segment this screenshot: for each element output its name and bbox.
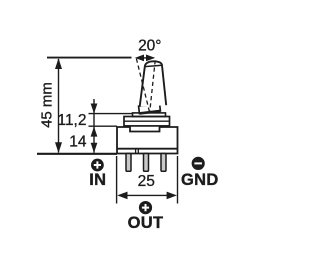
label OUT	[128, 214, 164, 232]
extension line 25 right	[177, 156, 179, 204]
IN plus symbol	[91, 159, 104, 172]
extension line 11,2 top	[89, 113, 133, 115]
label 11,2	[57, 112, 86, 129]
bushing nut	[124, 117, 170, 126]
label 14	[69, 134, 87, 151]
lever collar	[139, 104, 161, 114]
extension line top of lever	[47, 57, 132, 59]
label 20 degrees	[138, 38, 161, 55]
label 45 mm	[39, 82, 56, 128]
svg-text:OUT: OUT	[128, 214, 164, 232]
extension line 25 left	[116, 156, 118, 204]
switch body	[117, 127, 178, 154]
svg-text:25: 25	[138, 173, 155, 190]
dashed swing line right	[150, 60, 155, 111]
pin 1	[126, 154, 131, 172]
dimension line 11,2 / 14 vertical	[91, 99, 98, 153]
dimension line 45 mm	[55, 58, 62, 153]
dashed swing line left	[136, 59, 149, 112]
svg-text:11,2: 11,2	[57, 112, 86, 129]
svg-text:14: 14	[69, 134, 87, 151]
pin 2	[144, 154, 149, 172]
angle arrow 20 degrees	[135, 55, 155, 62]
label IN	[89, 171, 106, 189]
OUT plus symbol	[139, 201, 152, 214]
GND minus symbol	[192, 157, 205, 170]
svg-text:20°: 20°	[138, 38, 161, 55]
dimension arrow 25	[117, 192, 177, 200]
label GND	[181, 171, 219, 189]
pin 3	[161, 154, 166, 172]
toggle lever	[140, 61, 167, 106]
svg-text:GND: GND	[181, 171, 219, 189]
svg-text:45 mm: 45 mm	[39, 82, 56, 128]
extension line bottom (body base, extends left)	[37, 153, 117, 155]
extension line 11,2 bottom / body top	[89, 125, 118, 127]
mounting plate	[133, 113, 166, 117]
label 25	[138, 173, 155, 190]
svg-text:IN: IN	[89, 171, 106, 189]
